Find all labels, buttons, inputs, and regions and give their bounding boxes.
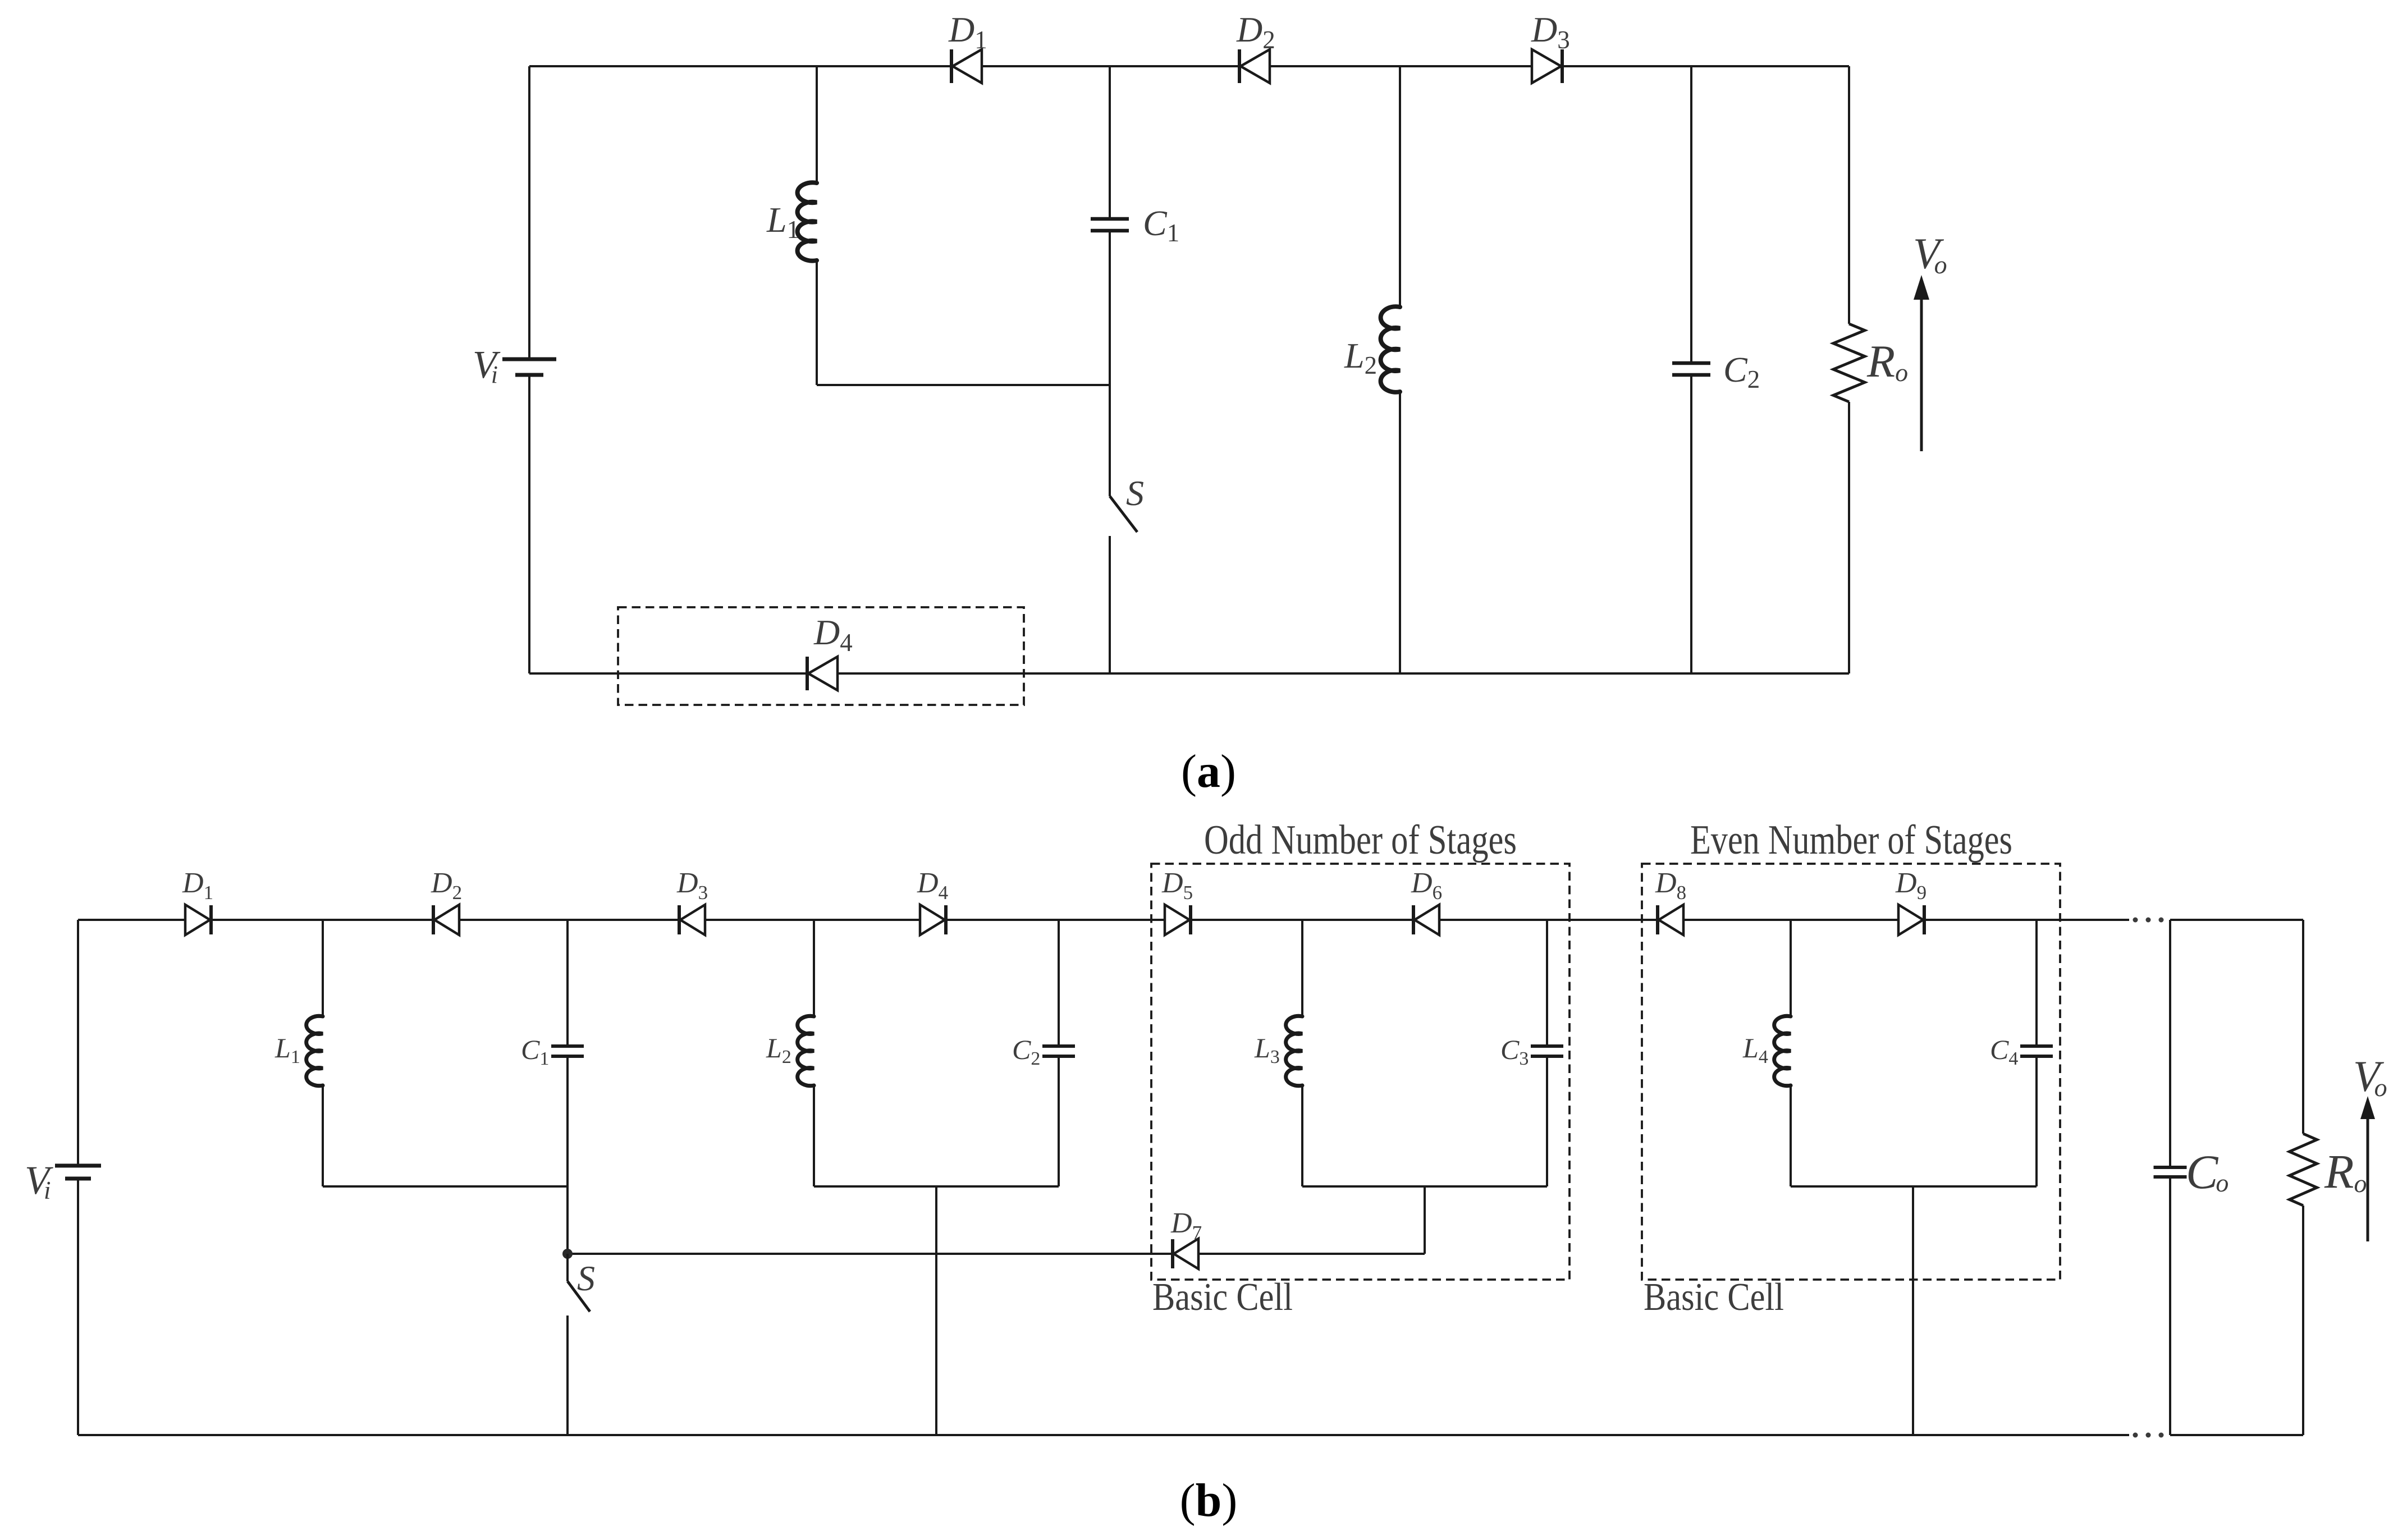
circuit (b) bottom rail dots	[2133, 1433, 2164, 1438]
capacitor C2 (b)	[1042, 1046, 1075, 1056]
inductor L1 (b) branch wire upper	[322, 920, 324, 1016]
label S (b)	[577, 1258, 595, 1298]
switch S (a) blade	[1110, 496, 1137, 532]
stage2 return wire to bottom rail (b)	[935, 1186, 937, 1435]
wire below battery (b)	[77, 1179, 79, 1435]
label S (a)	[1126, 473, 1144, 513]
circuit (b) top rail wire left part	[78, 919, 2129, 921]
dashed box Even Number of Stages (b)	[1642, 864, 2060, 1280]
output voltage arrow Vo (b)	[2360, 1096, 2375, 1241]
capacitor C3 (b) branch wire lower	[1546, 1056, 1548, 1186]
capacitor C2 (b) branch wire upper	[1058, 920, 1060, 1046]
stage4 bottom wire (b)	[1791, 1185, 2037, 1188]
resistor Ro (b) branch wire upper	[2302, 920, 2304, 1134]
label L4 (b)	[1742, 1032, 1768, 1067]
circuit (a) bottom rail wire	[529, 672, 1849, 675]
capacitor C1 (b)	[551, 1046, 584, 1056]
svg-text:(a): (a)	[1181, 745, 1236, 797]
label Vi (a)	[473, 343, 501, 388]
label L2 (a)	[1344, 336, 1377, 379]
diode D6 (b)	[1411, 867, 1442, 935]
label L1 (b)	[274, 1032, 300, 1067]
inductor L1 (a) branch wire lower	[816, 260, 818, 385]
svg-text:(b): (b)	[1180, 1474, 1238, 1527]
junction node dot at switch (b)	[562, 1249, 573, 1259]
inductor L1 (a)	[798, 182, 817, 260]
capacitor C1 (a) branch wire lower	[1109, 231, 1111, 385]
capacitor C4 (b)	[2020, 1046, 2053, 1056]
resistor Ro (b) branch wire lower	[2302, 1206, 2304, 1435]
stage2 bottom wire (b)	[814, 1185, 1059, 1188]
label Co (b)	[2186, 1145, 2228, 1199]
capacitor C2 (a)	[1672, 363, 1710, 375]
capacitor C1 (a) branch wire upper	[1109, 66, 1111, 219]
label Basic Cell (even box)	[1644, 1276, 1784, 1319]
inductor L2 (a) branch wire upper	[1399, 66, 1401, 307]
svg-text:Basic Cell: Basic Cell	[1152, 1276, 1293, 1319]
diode D1 (b)	[182, 867, 213, 935]
svg-text:Basic Cell: Basic Cell	[1644, 1276, 1784, 1319]
label Ro (b)	[2324, 1144, 2367, 1198]
stage4 return wire to bottom rail (b)	[1912, 1186, 1914, 1435]
capacitor Co (b) branch wire lower	[2169, 1177, 2171, 1435]
inductor L2 (a) branch wire lower	[1399, 392, 1401, 673]
inductor L3 (b) branch wire lower	[1301, 1085, 1303, 1186]
label Vo (b)	[2353, 1052, 2387, 1102]
output voltage arrow Vo (a)	[1914, 275, 1929, 451]
diode D4 (b)	[917, 867, 948, 935]
label Vo (a)	[1913, 229, 1947, 279]
svg-text:Even Number of Stages: Even Number of Stages	[1690, 817, 2012, 863]
svg-text:Vi: Vi	[25, 1158, 53, 1204]
circuit (b) top rail dots	[2133, 918, 2164, 923]
battery Vi (a)	[502, 359, 556, 375]
label C1 (a)	[1143, 203, 1179, 247]
label C3 (b)	[1500, 1034, 1529, 1069]
inductor L4 (b) branch wire upper	[1790, 920, 1792, 1016]
circuit (a) top rail wire	[529, 65, 1849, 67]
diode D2 (a)	[1236, 10, 1275, 83]
inductor L2 (b) branch wire upper	[813, 920, 815, 1016]
capacitor C4 (b) branch wire upper	[2035, 920, 2038, 1046]
circuit (b) bottom rail wire left part	[78, 1434, 2129, 1436]
inductor L1 (b) branch wire lower	[322, 1085, 324, 1186]
inductor L2 (b)	[798, 1016, 814, 1085]
capacitor C1 (a)	[1091, 219, 1129, 231]
circuit (b) left rail wire	[77, 920, 79, 1166]
svg-text:Odd Number of Stages: Odd Number of Stages	[1204, 817, 1517, 863]
caption (b)	[1180, 1474, 1238, 1527]
stage1 bottom wire (b)	[323, 1185, 568, 1188]
diode D8 (b)	[1655, 867, 1686, 935]
capacitor C3 (b) branch wire upper	[1546, 920, 1548, 1046]
capacitor C2 (a) branch wire upper	[1690, 66, 1692, 363]
label C1 (b)	[521, 1034, 549, 1069]
resistor Ro (b)	[2290, 1134, 2317, 1206]
wire L1 bottom to C1 node (a)	[817, 384, 1110, 386]
inductor L4 (b)	[1774, 1016, 1791, 1085]
label L2 (b)	[766, 1032, 791, 1067]
resistor Ro (a) branch wire lower	[1848, 402, 1850, 673]
label C2 (b)	[1012, 1034, 1040, 1069]
inductor L2 (a)	[1381, 306, 1400, 392]
capacitor C1 (b) branch wire upper	[566, 920, 569, 1046]
capacitor C2 (b) branch wire lower	[1058, 1056, 1060, 1186]
header Even Number of Stages	[1690, 817, 2012, 863]
label L3 (b)	[1254, 1032, 1280, 1067]
label L1 (a)	[766, 200, 799, 244]
svg-text:Vi: Vi	[473, 343, 501, 388]
diode D7 (b)	[1170, 1207, 1202, 1269]
D7 return wire (b)	[568, 1253, 1425, 1255]
svg-text:S: S	[577, 1258, 595, 1298]
circuit (b) bottom rail wire right part	[2170, 1434, 2303, 1436]
switch S (b) lower wire	[566, 1316, 569, 1435]
stage3 return wire down to D7 wire (b)	[1424, 1186, 1426, 1254]
diode D2 (b)	[431, 867, 462, 935]
switch S (b) blade	[568, 1281, 590, 1312]
label Ro (a)	[1866, 336, 1908, 387]
label C4 (b)	[1990, 1034, 2018, 1069]
diode D3 (b)	[676, 867, 708, 935]
capacitor C4 (b) branch wire lower	[2035, 1056, 2038, 1186]
header Odd Number of Stages	[1204, 817, 1517, 863]
switch S (a) upper wire	[1109, 385, 1111, 496]
inductor L3 (b) branch wire upper	[1301, 920, 1303, 1016]
inductor L1 (a) branch wire upper	[816, 66, 818, 183]
switch S (a) lower wire	[1109, 536, 1111, 673]
battery Vi (b)	[55, 1166, 101, 1179]
circuit (b) top rail wire right part	[2170, 919, 2303, 921]
inductor L4 (b) branch wire lower	[1790, 1085, 1792, 1186]
label Vi (b)	[25, 1158, 53, 1204]
diode D9 (b)	[1895, 867, 1926, 935]
capacitor C2 (a) branch wire lower	[1690, 375, 1692, 673]
capacitor C1 (b) branch wire lower	[566, 1056, 569, 1254]
inductor L2 (b) branch wire lower	[813, 1085, 815, 1186]
inductor L3 (b)	[1286, 1016, 1302, 1085]
capacitor C3 (b)	[1531, 1046, 1563, 1056]
inductor L1 (b)	[306, 1016, 323, 1085]
resistor Ro (a)	[1833, 324, 1865, 402]
stage3 bottom wire (b)	[1302, 1185, 1547, 1188]
caption (a)	[1181, 745, 1236, 797]
label C2 (a)	[1723, 350, 1760, 393]
wire below battery (a)	[528, 375, 530, 673]
diode D5 (b)	[1161, 867, 1193, 935]
circuit (a) left rail wire (battery branch)	[528, 66, 530, 359]
diode D1 (a)	[948, 10, 987, 83]
resistor Ro (a) branch wire upper	[1848, 66, 1850, 324]
switch S (b) upper wire	[566, 1254, 569, 1281]
diode D4 (a)	[807, 612, 853, 690]
dashed box around D4 (a)	[618, 607, 1024, 705]
svg-text:S: S	[1126, 473, 1144, 513]
capacitor Co (b)	[2154, 1167, 2187, 1177]
diode D3 (a)	[1531, 10, 1570, 83]
dashed box Odd Number of Stages (b)	[1151, 864, 1569, 1280]
label Basic Cell (odd box)	[1152, 1276, 1293, 1319]
capacitor Co (b) branch wire upper	[2169, 920, 2171, 1167]
